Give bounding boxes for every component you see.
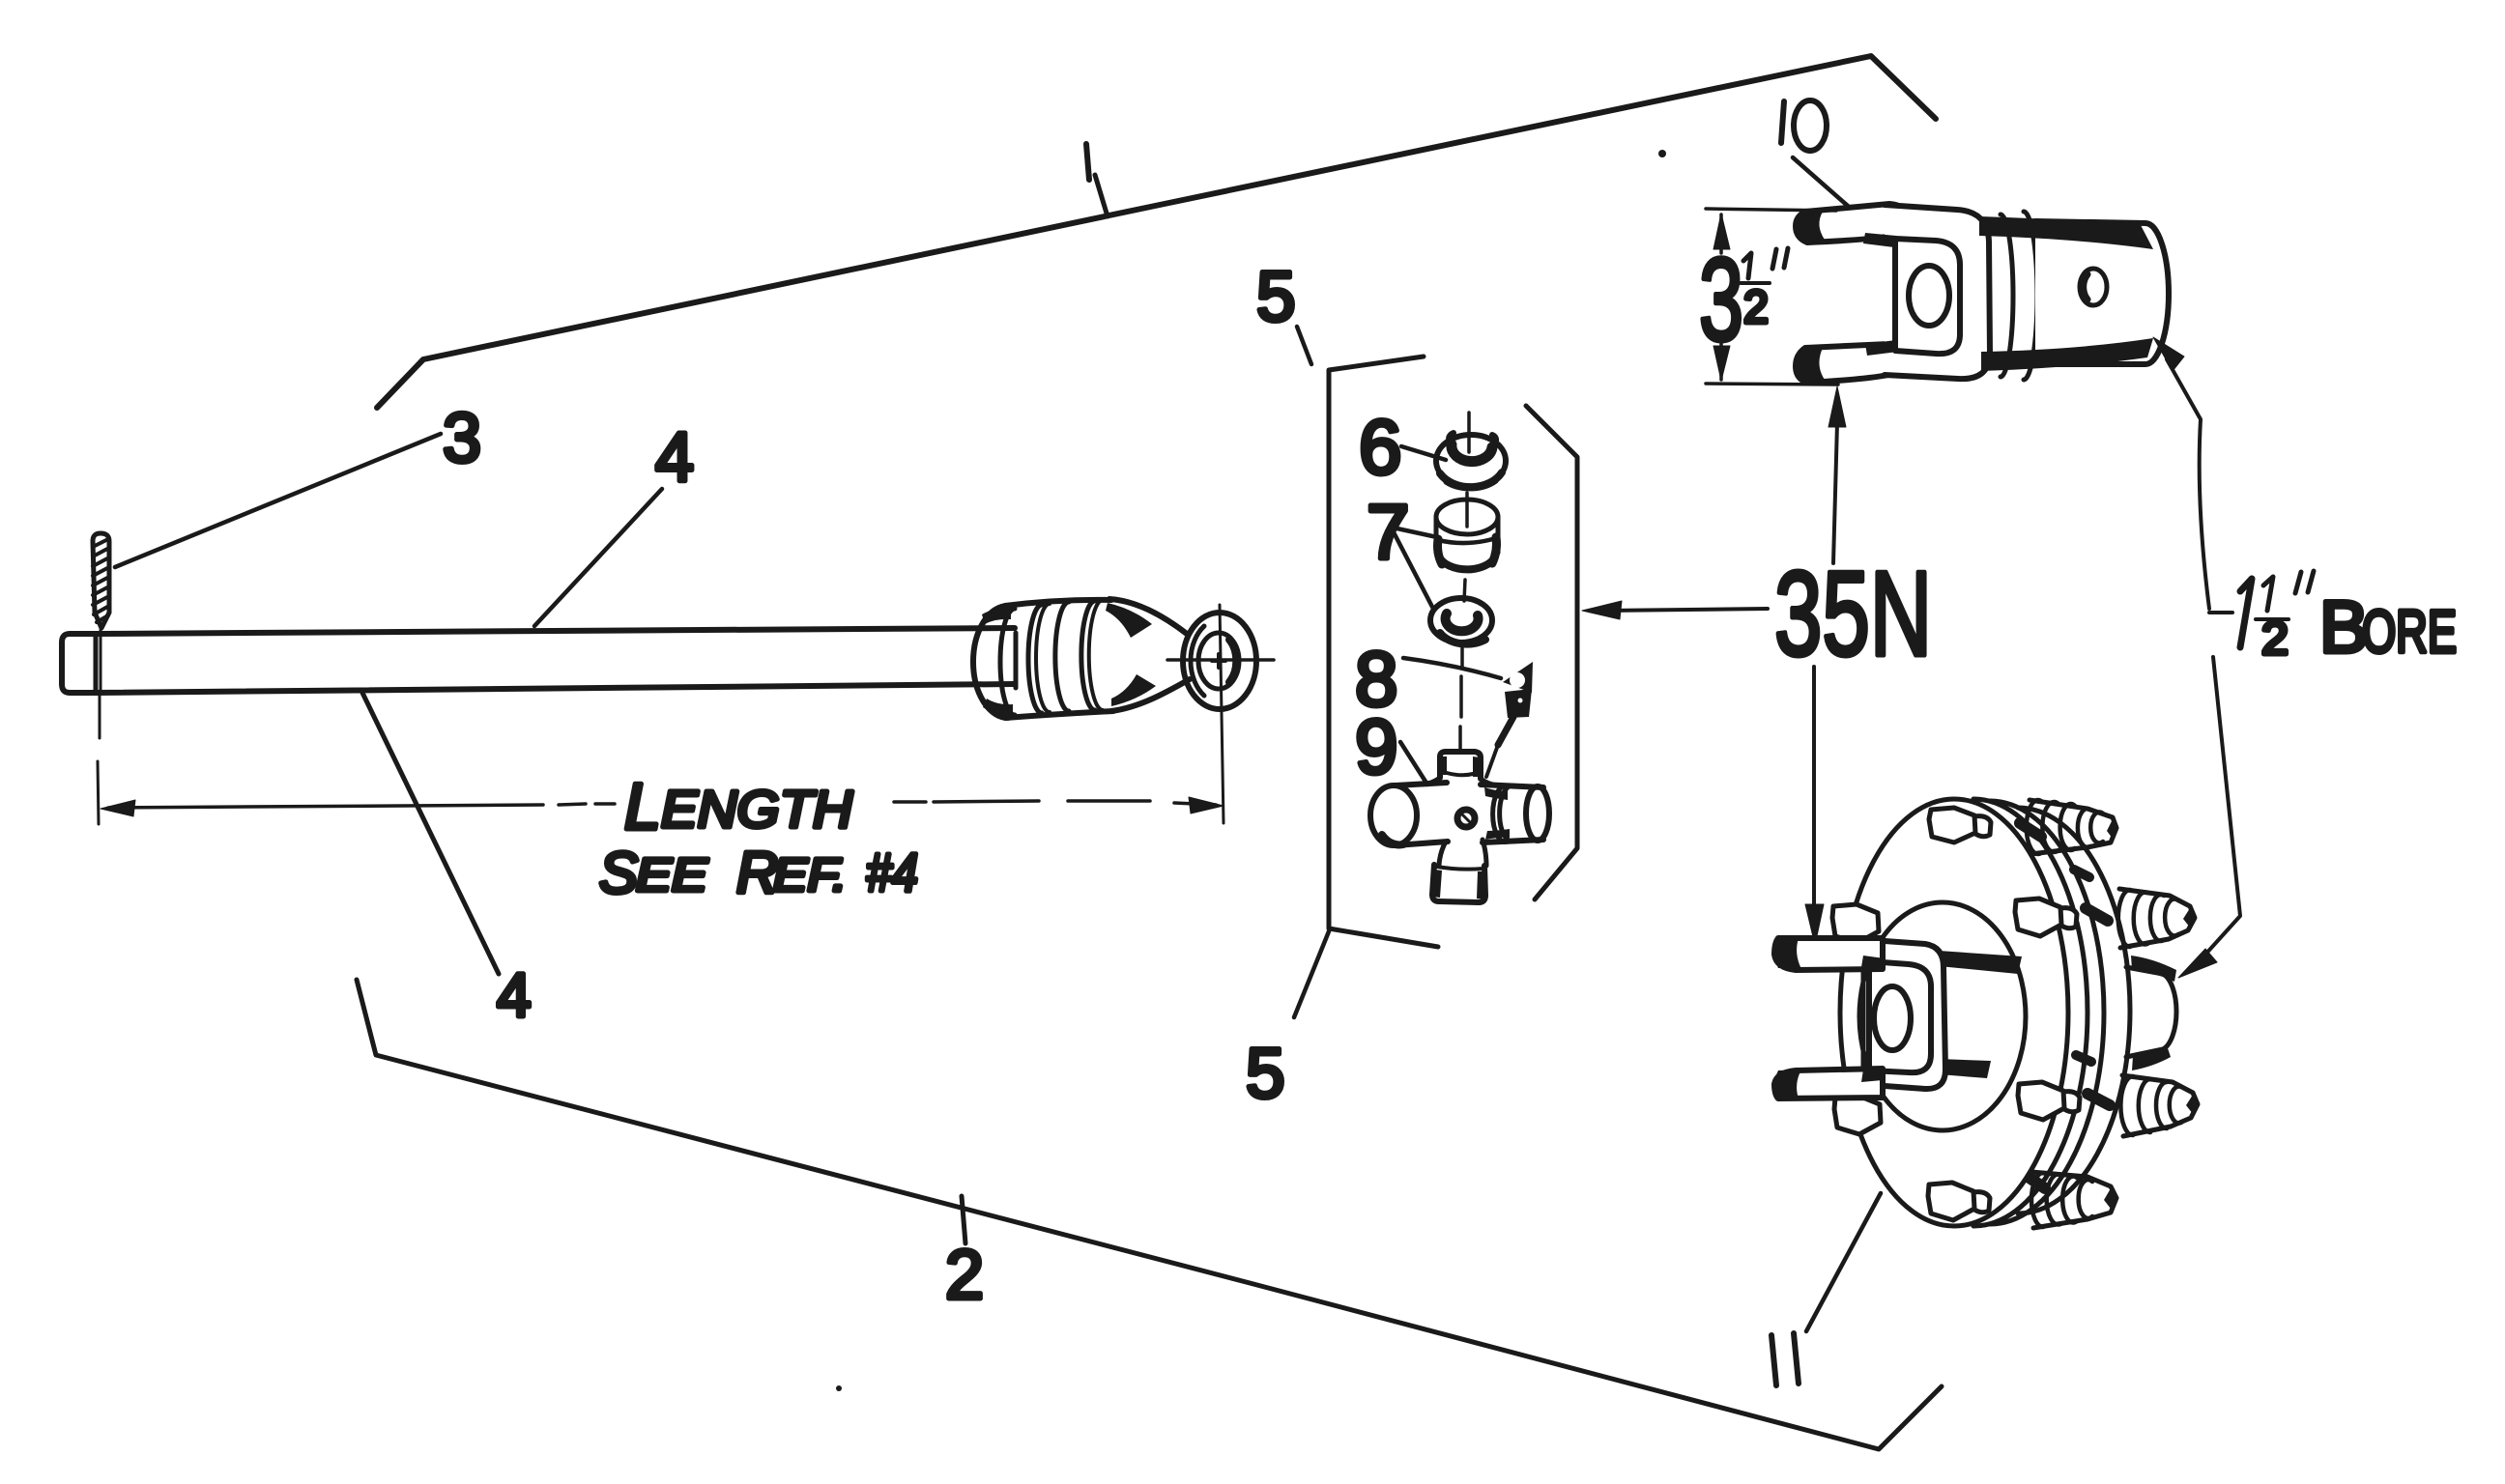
svg-text:6: 6	[1359, 404, 1402, 490]
bracket outer	[1885, 205, 1990, 379]
length dim arrowhead right	[1189, 797, 1224, 813]
shaft tube end edge	[1014, 633, 1019, 688]
label 11	[1771, 1333, 1799, 1385]
cylinder	[2035, 221, 2169, 364]
length dimension extension line right	[1220, 605, 1224, 823]
svg-text:R: R	[736, 841, 778, 905]
label 9 leader	[1400, 742, 1427, 785]
label 5 top tick	[1297, 327, 1311, 364]
bracket hole	[1909, 266, 1949, 326]
bracket inner	[1895, 239, 1960, 354]
svg-text:ORE: ORE	[2362, 599, 2457, 666]
pin center line	[100, 630, 101, 738]
yoke hole	[1874, 986, 1911, 1050]
outline top edge item 1	[377, 56, 1936, 408]
bore leader down to flange hub	[2203, 657, 2240, 956]
collar rings	[2001, 214, 2013, 377]
label 3 leader	[115, 434, 441, 567]
shaft tube item 4	[96, 628, 1015, 634]
coupler eye	[1167, 613, 1274, 709]
stud top	[2027, 800, 2118, 854]
bottom boss	[1432, 865, 1485, 902]
label 10	[1781, 101, 1784, 143]
stray dot	[1658, 150, 1666, 157]
ujoint center line	[1460, 413, 1469, 749]
top boss	[1440, 752, 1481, 779]
rim tick marks	[2020, 823, 2110, 1188]
right trunnion	[1481, 785, 1543, 842]
svg-text:L: L	[624, 770, 661, 843]
label 4 lower leader	[362, 693, 499, 974]
lower ear	[1796, 344, 1907, 383]
yoke bracket inner	[1869, 961, 1931, 1072]
bore leader up to yoke 10 cylinder	[2167, 359, 2209, 609]
label 1 leader tick	[1095, 175, 1108, 216]
svg-text:EE: EE	[636, 850, 708, 901]
upper ear	[1796, 204, 1907, 243]
svg-text:2: 2	[945, 1237, 984, 1314]
left hex bolts in front of boss	[1832, 904, 1881, 1134]
svg-text:5: 5	[1246, 1035, 1285, 1113]
coupler collar on shaft end	[973, 600, 1113, 718]
coupler neck to eye	[1106, 599, 1190, 711]
hub sleeve	[2126, 967, 2176, 1057]
bearing cup item 7	[1436, 499, 1498, 569]
bore label	[2209, 571, 2457, 669]
cylinder shading top/bottom	[1979, 216, 2153, 249]
thrust washer item 7	[1430, 598, 1492, 644]
svg-text:#4: #4	[866, 842, 918, 902]
svg-text:2: 2	[1743, 282, 1769, 333]
hex bolts on face	[1928, 808, 2080, 1220]
upper arm	[1774, 938, 1883, 970]
svg-text:35N: 35N	[1774, 548, 1932, 681]
yoke item 10	[1796, 204, 2169, 383]
label 7 leader fork	[1393, 528, 1437, 609]
label 5 bottom tick	[1294, 931, 1329, 1017]
35N arrow down to flange yoke	[1812, 667, 1816, 908]
lower arm	[1774, 1069, 1883, 1099]
svg-text:3: 3	[1699, 234, 1743, 365]
collar shading	[982, 608, 1011, 624]
center boss	[1859, 902, 2026, 1130]
svg-text:9: 9	[1355, 703, 1398, 789]
stud upper right	[2118, 889, 2197, 948]
label 4 upper leader	[534, 489, 662, 626]
label 10 leader	[1793, 157, 1849, 207]
label 11 leader	[1806, 1193, 1881, 1331]
svg-text:4: 4	[655, 419, 694, 497]
svg-text:5: 5	[1256, 258, 1296, 336]
bracket shadows	[1863, 233, 1896, 247]
35N arrow left to polygon	[1604, 609, 1768, 611]
dimension 3.5in	[1699, 209, 1838, 385]
svg-text:ENGTH: ENGTH	[661, 781, 853, 839]
svg-text:2: 2	[2261, 614, 2289, 665]
outline bottom edge item 2	[357, 980, 1942, 1449]
inner polygon item 5	[1329, 357, 1438, 947]
rim arcs	[1973, 799, 2087, 1226]
svg-text:4: 4	[497, 960, 532, 1030]
yoke bracket outer	[1885, 941, 1945, 1089]
label 8 leader	[1403, 658, 1501, 678]
stud bottom	[2031, 1172, 2117, 1228]
length dimension extension line left	[98, 761, 99, 824]
ujoint cross item 9	[1370, 752, 1549, 902]
svg-text:S: S	[599, 841, 638, 905]
35N arrow up to yoke 10	[1833, 423, 1837, 563]
center ring	[1457, 810, 1475, 827]
length dimension line	[108, 804, 615, 808]
shaft left end cap	[62, 634, 96, 693]
svg-text:3: 3	[443, 400, 481, 477]
label 1	[1086, 144, 1089, 180]
body	[1421, 778, 1498, 866]
label 6 leader	[1401, 446, 1446, 460]
left trunnion	[1370, 785, 1417, 845]
label 2 leader tick	[962, 1196, 965, 1243]
grease fitting item 8	[1486, 662, 1533, 777]
shaft end cap divider	[94, 634, 99, 693]
stud lower right	[2120, 1075, 2200, 1136]
disc face	[1840, 799, 2068, 1226]
flange assembly item 11	[1774, 799, 2200, 1228]
svg-text:EF.: EF.	[773, 850, 847, 901]
cylinder hole	[2080, 269, 2107, 305]
pin item 3	[93, 533, 109, 628]
length dim arrowhead left	[101, 800, 135, 816]
snap ring item 6	[1436, 433, 1506, 489]
shadow bands	[1939, 951, 2022, 974]
